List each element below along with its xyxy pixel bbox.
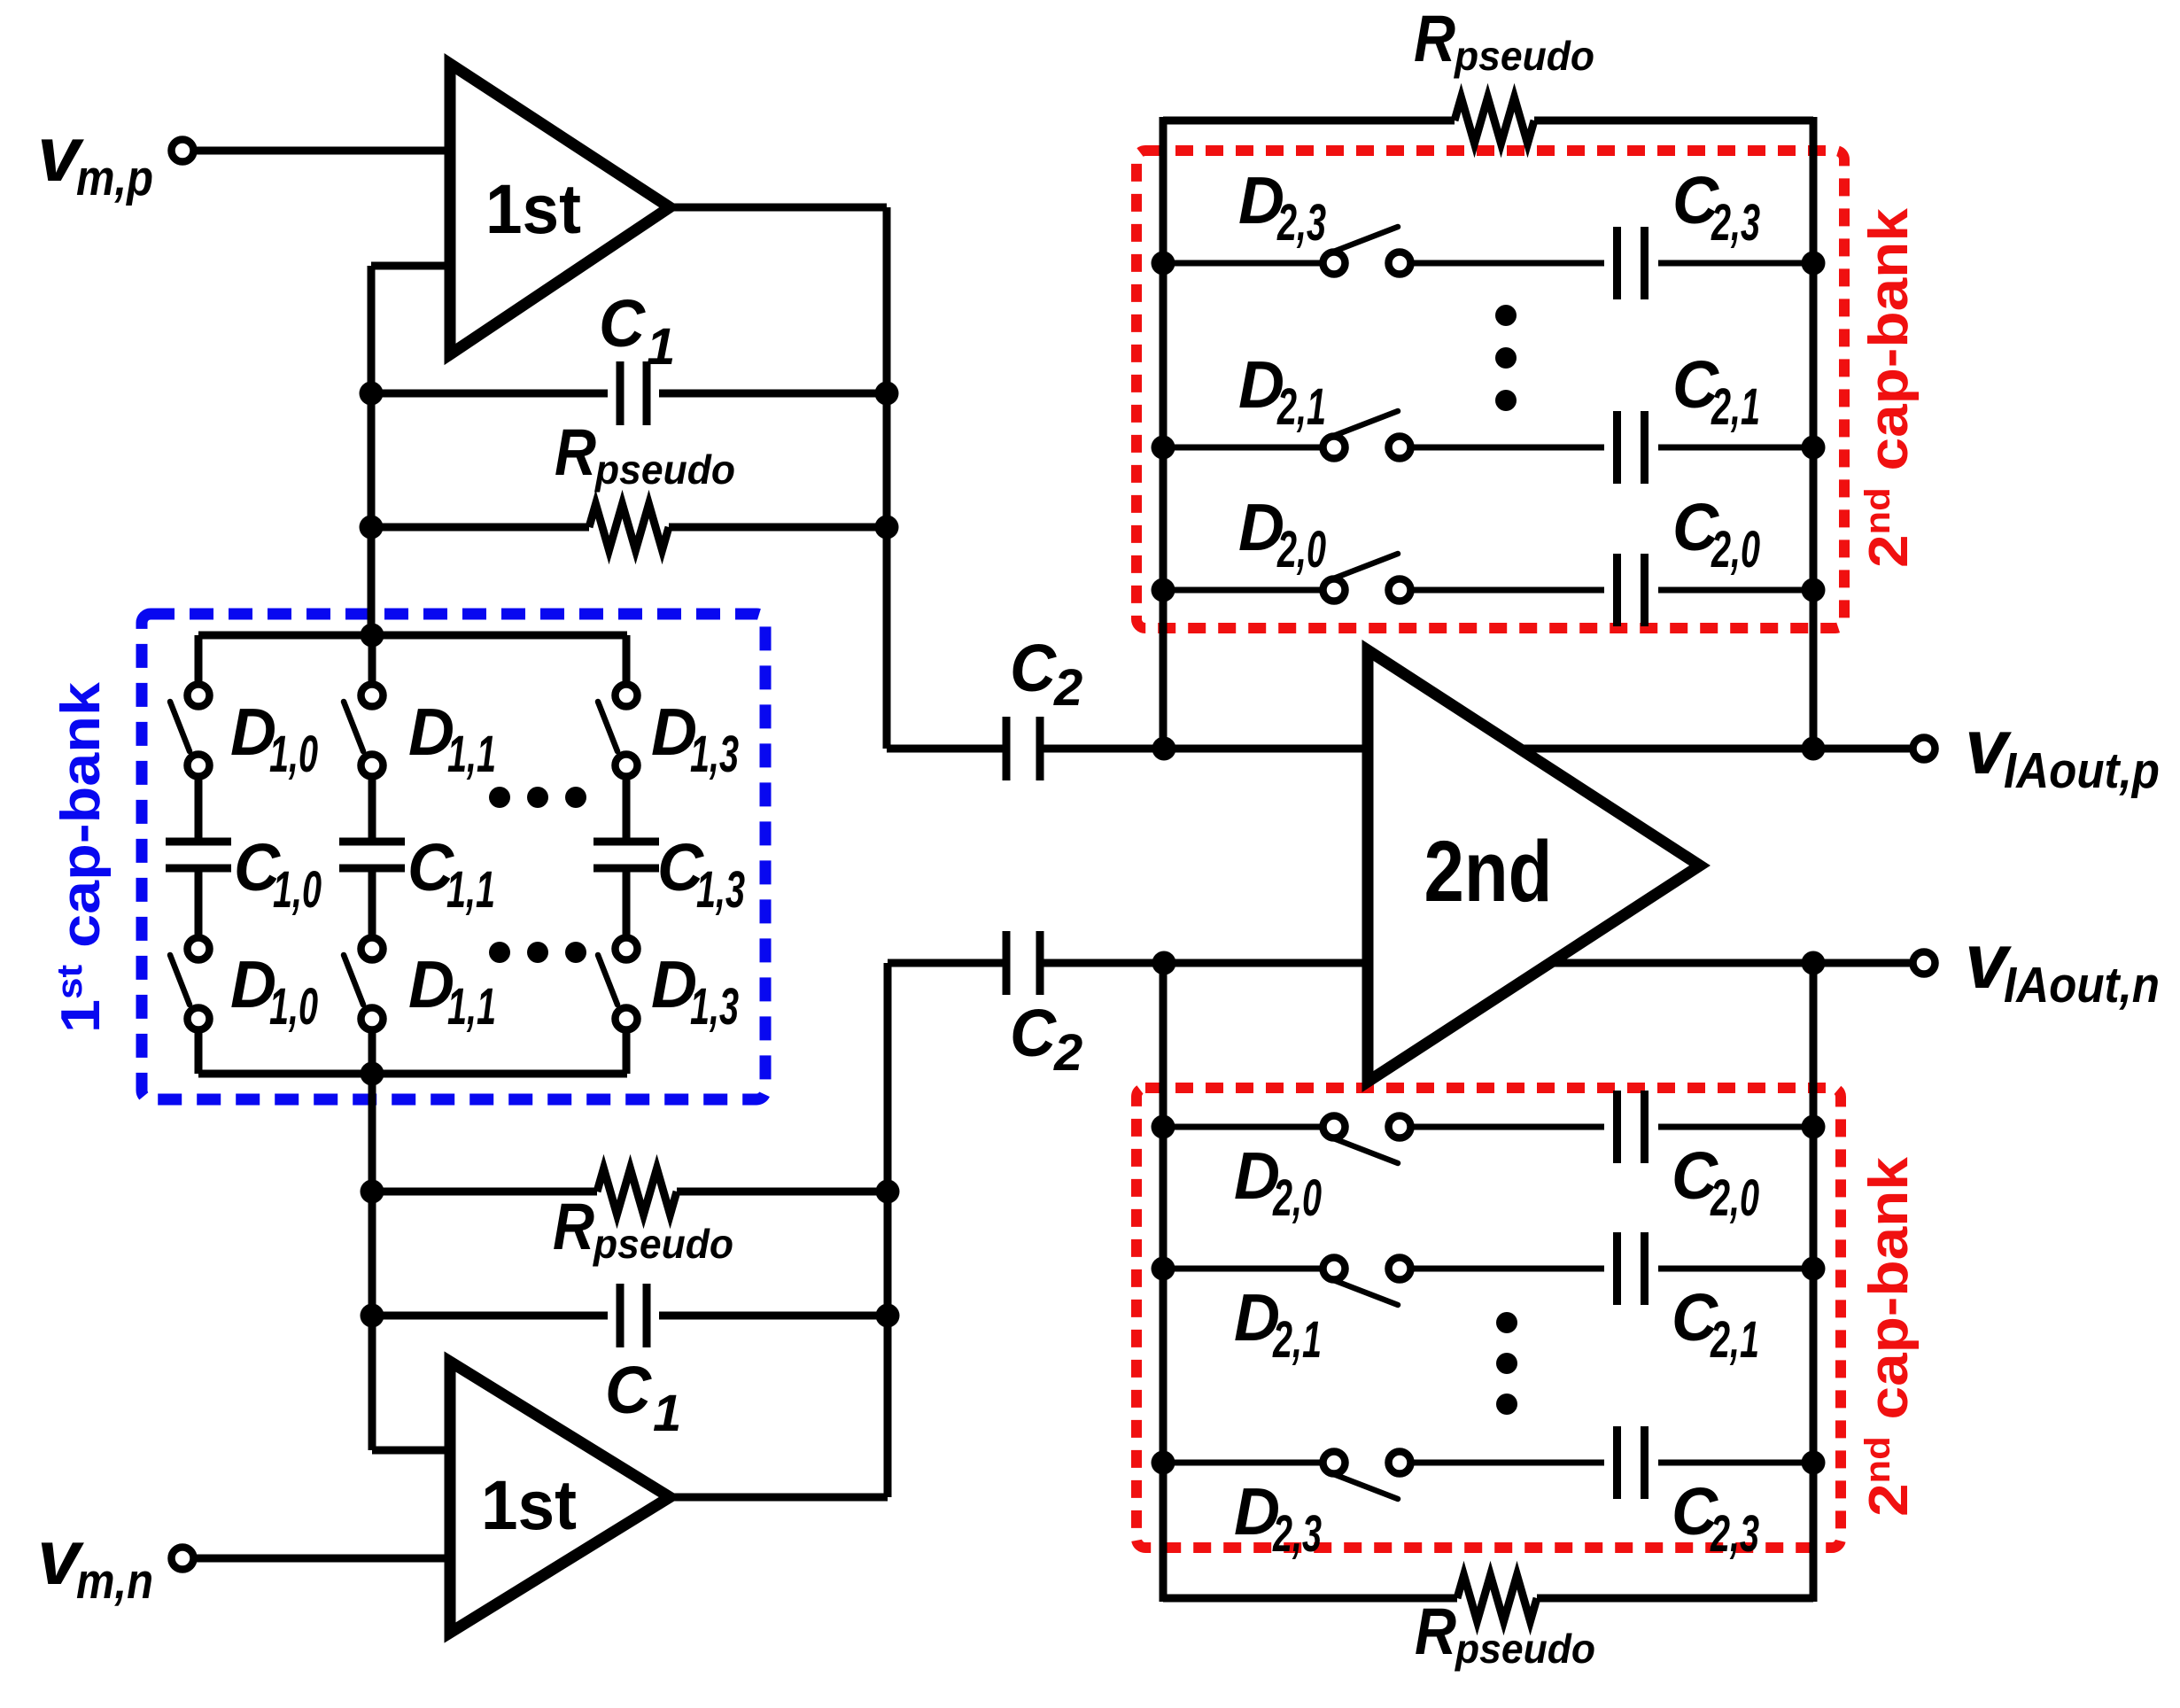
svg-text:1,1: 1,1: [447, 726, 496, 783]
svg-text:1,0: 1,0: [269, 726, 318, 783]
svg-text:1st: 1st: [485, 169, 581, 248]
svg-text:pseudo: pseudo: [1454, 1626, 1595, 1672]
svg-text:2,0: 2,0: [1710, 1169, 1759, 1227]
svg-text:C: C: [605, 1353, 653, 1427]
svg-text:1st cap-bank: 1st cap-bank: [50, 681, 112, 1033]
svg-text:2,3: 2,3: [1276, 194, 1326, 252]
svg-text:C: C: [599, 286, 647, 361]
svg-text:1: 1: [647, 318, 675, 376]
svg-text:C: C: [1010, 631, 1058, 705]
svg-text:2,1: 2,1: [1711, 378, 1760, 436]
svg-text:IAout,n: IAout,n: [2004, 957, 2160, 1013]
svg-text:1,0: 1,0: [269, 978, 318, 1036]
svg-text:2,3: 2,3: [1710, 1505, 1759, 1563]
svg-text:R: R: [553, 1190, 594, 1263]
svg-text:m,n: m,n: [76, 1553, 153, 1610]
svg-text:2,3: 2,3: [1272, 1505, 1322, 1563]
svg-text:2,0: 2,0: [1276, 521, 1326, 578]
svg-text:1,0: 1,0: [273, 861, 322, 919]
svg-text:m,p: m,p: [76, 150, 153, 206]
svg-text:2: 2: [1053, 1024, 1082, 1082]
svg-text:2,1: 2,1: [1272, 1311, 1322, 1369]
svg-text:R: R: [555, 415, 596, 489]
svg-text:2,0: 2,0: [1272, 1169, 1322, 1227]
svg-text:1,3: 1,3: [690, 726, 739, 783]
svg-text:2: 2: [1053, 659, 1082, 717]
svg-text:2,1: 2,1: [1710, 1311, 1759, 1369]
svg-text:pseudo: pseudo: [592, 1221, 733, 1267]
svg-text:1st: 1st: [481, 1465, 577, 1544]
svg-text:R: R: [1415, 1595, 1456, 1668]
svg-text:pseudo: pseudo: [1453, 33, 1594, 79]
svg-text:2,1: 2,1: [1276, 378, 1326, 436]
svg-text:R: R: [1414, 2, 1455, 75]
svg-text:IAout,p: IAout,p: [2004, 742, 2160, 799]
svg-text:2,3: 2,3: [1711, 194, 1760, 252]
svg-text:1,3: 1,3: [696, 861, 745, 919]
svg-text:1,3: 1,3: [690, 978, 739, 1036]
svg-text:2nd cap-bank: 2nd cap-bank: [1858, 207, 1920, 568]
svg-text:2nd cap-bank: 2nd cap-bank: [1858, 1156, 1920, 1517]
svg-text:2nd: 2nd: [1424, 823, 1553, 920]
svg-text:pseudo: pseudo: [593, 446, 735, 493]
svg-text:1,1: 1,1: [447, 978, 496, 1036]
svg-text:C: C: [1010, 996, 1058, 1070]
svg-text:1: 1: [653, 1385, 681, 1442]
svg-text:2,0: 2,0: [1711, 521, 1760, 578]
svg-text:1,1: 1,1: [446, 861, 495, 919]
